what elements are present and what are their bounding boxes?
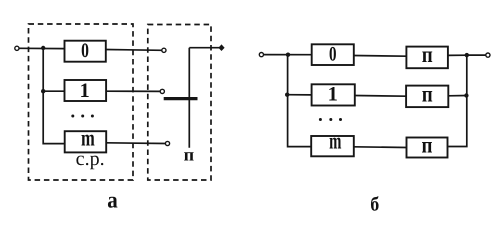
block 0 (b) — [312, 44, 354, 65]
wire input b — [264, 54, 312, 56]
output terminal b — [486, 53, 490, 57]
svg-text:1: 1 — [328, 83, 338, 105]
wire bus vertical a — [43, 48, 64, 144]
contact circle row0 — [162, 48, 166, 52]
svg-text:m: m — [81, 125, 95, 150]
block 1 (b) — [312, 84, 355, 105]
dashed box left (с.р. section) — [29, 24, 134, 180]
wire 0 to p0 — [354, 55, 407, 58]
node input junction — [41, 46, 45, 50]
node b row1 — [285, 93, 289, 97]
svg-text:0: 0 — [81, 40, 89, 62]
wire row1 left b — [288, 94, 312, 96]
block 1 (a) — [65, 80, 107, 101]
node b out — [465, 53, 469, 57]
output diamond terminal — [218, 44, 224, 51]
node b row1 right — [464, 93, 468, 97]
svg-text:п: п — [422, 81, 433, 106]
commutator vertical line — [188, 48, 190, 148]
node row1 junction — [41, 89, 45, 93]
svg-text:б: б — [370, 193, 379, 215]
svg-text:0: 0 — [329, 43, 337, 65]
node b in — [286, 53, 290, 57]
commutator wiper bar — [164, 97, 198, 100]
input terminal a — [15, 46, 19, 50]
svg-text:1: 1 — [79, 80, 89, 102]
svg-text:п: п — [422, 42, 433, 67]
wire rowm right a — [106, 142, 165, 145]
wire 1 to p1 — [355, 95, 406, 98]
block p0 — [406, 47, 448, 69]
svg-text:с.р.: с.р. — [76, 148, 105, 170]
contact circle rowm — [165, 141, 169, 145]
block pm — [407, 138, 448, 158]
output wire a — [189, 47, 221, 49]
dots b — [319, 118, 322, 121]
block p1 — [406, 86, 448, 108]
wire m to pm — [354, 146, 407, 149]
wire row0 right a — [106, 49, 162, 52]
block 0 (a) — [65, 41, 106, 62]
left bus b — [288, 55, 312, 147]
block m (b) — [311, 136, 354, 156]
input terminal b — [259, 53, 263, 57]
svg-text:п: п — [184, 145, 195, 165]
svg-text:m: m — [329, 129, 341, 154]
dashed box right (п section) — [148, 25, 211, 181]
wire to output circle b — [467, 54, 486, 56]
right bus b — [448, 55, 466, 147]
wire row1 right a — [106, 90, 160, 92]
contact circle row1 — [160, 89, 164, 93]
wire input to block 0 — [19, 47, 65, 49]
wire row1 a — [43, 90, 64, 92]
wire p1 out — [448, 95, 467, 97]
dots a — [71, 115, 74, 118]
svg-text:а: а — [107, 187, 118, 212]
svg-text:п: п — [422, 132, 433, 157]
wire p0 out — [448, 54, 467, 56]
block m (a) — [65, 131, 107, 152]
